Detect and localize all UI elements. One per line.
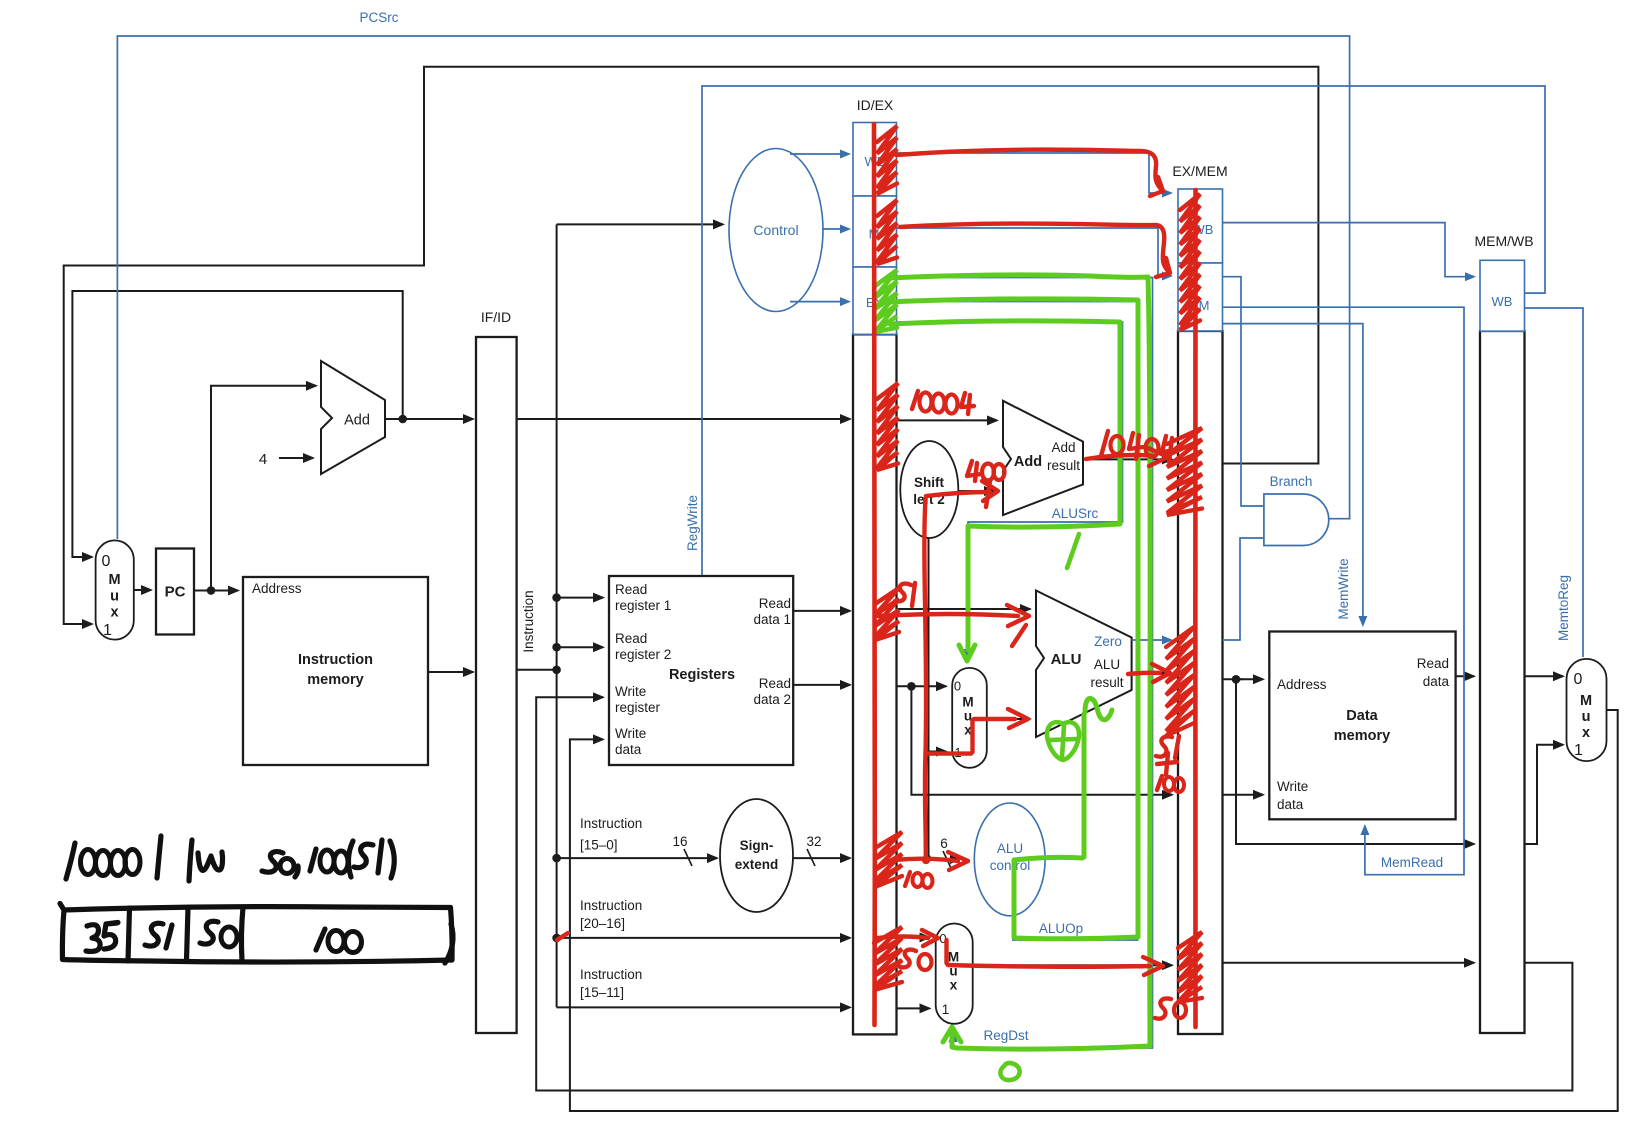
svg-text:Address: Address	[252, 581, 302, 596]
svg-text:Read: Read	[1417, 656, 1449, 671]
svg-text:data: data	[615, 742, 642, 757]
svg-text:Registers: Registers	[669, 667, 735, 683]
svg-text:M: M	[108, 572, 120, 588]
svg-text:32: 32	[806, 834, 821, 849]
svg-text:IF/ID: IF/ID	[481, 309, 511, 325]
svg-text:memory: memory	[307, 672, 363, 688]
svg-text:ALU: ALU	[1094, 657, 1120, 672]
svg-text:4: 4	[259, 451, 267, 468]
svg-text:1: 1	[103, 622, 112, 639]
svg-text:[15–11]: [15–11]	[580, 985, 624, 1000]
svg-text:M: M	[948, 950, 959, 965]
svg-text:RegWrite: RegWrite	[685, 495, 700, 551]
svg-text:1: 1	[1574, 742, 1583, 759]
svg-text:0: 0	[102, 553, 111, 570]
svg-text:data 1: data 1	[753, 612, 791, 627]
svg-text:ALU: ALU	[1051, 651, 1082, 668]
svg-text:Address: Address	[1277, 677, 1327, 692]
svg-text:Write: Write	[1277, 779, 1308, 794]
svg-text:0: 0	[954, 679, 961, 694]
svg-text:MEM/WB: MEM/WB	[1474, 233, 1533, 249]
svg-text:Add: Add	[1014, 454, 1042, 470]
svg-text:Instruction: Instruction	[521, 590, 536, 652]
svg-text:ID/EX: ID/EX	[857, 97, 894, 113]
svg-text:x: x	[950, 978, 958, 993]
svg-text:Shift: Shift	[914, 475, 944, 490]
svg-text:Read: Read	[759, 596, 791, 611]
svg-text:data: data	[1423, 674, 1450, 689]
svg-text:extend: extend	[735, 857, 779, 872]
svg-text:register 2: register 2	[615, 647, 671, 662]
svg-text:ALU: ALU	[997, 841, 1023, 856]
svg-text:data: data	[1277, 797, 1304, 812]
svg-text:result: result	[1090, 675, 1123, 690]
svg-text:Sign-: Sign-	[740, 838, 774, 853]
svg-text:MemWrite: MemWrite	[1336, 558, 1351, 619]
svg-text:ALUOp: ALUOp	[1039, 921, 1083, 936]
svg-text:u: u	[1582, 709, 1591, 725]
svg-text:EX/MEM: EX/MEM	[1172, 163, 1227, 179]
svg-text:Read: Read	[615, 631, 647, 646]
svg-text:Write: Write	[615, 726, 646, 741]
svg-text:result: result	[1047, 458, 1080, 473]
svg-text:data 2: data 2	[753, 692, 791, 707]
svg-text:RegDst: RegDst	[983, 1028, 1028, 1043]
svg-text:MemtoReg: MemtoReg	[1556, 575, 1571, 641]
svg-text:[15–0]: [15–0]	[580, 838, 618, 853]
svg-text:WB: WB	[1492, 294, 1513, 309]
svg-text:Data: Data	[1346, 708, 1378, 724]
svg-text:PCSrc: PCSrc	[359, 10, 398, 25]
svg-text:[20–16]: [20–16]	[580, 916, 625, 931]
svg-text:Read: Read	[615, 582, 647, 597]
svg-text:Write: Write	[615, 684, 646, 699]
svg-text:1: 1	[942, 1002, 950, 1017]
svg-text:M: M	[1580, 693, 1592, 709]
svg-text:Read: Read	[759, 676, 791, 691]
svg-text:Instruction: Instruction	[580, 898, 642, 913]
svg-text:register: register	[615, 700, 661, 715]
svg-text:Add: Add	[1051, 440, 1075, 455]
svg-text:Instruction: Instruction	[580, 967, 642, 982]
svg-text:MemRead: MemRead	[1381, 855, 1443, 870]
svg-text:0: 0	[1574, 671, 1583, 688]
svg-text:x: x	[110, 605, 118, 621]
svg-text:x: x	[1582, 725, 1590, 741]
svg-text:register 1: register 1	[615, 598, 671, 613]
svg-text:Instruction: Instruction	[580, 816, 642, 831]
svg-text:PC: PC	[165, 584, 186, 601]
svg-text:u: u	[110, 589, 119, 605]
svg-text:Zero: Zero	[1094, 634, 1122, 649]
svg-text:Add: Add	[344, 413, 370, 429]
svg-text:M: M	[962, 695, 973, 710]
svg-text:Instruction: Instruction	[298, 652, 373, 668]
svg-text:16: 16	[672, 834, 687, 849]
svg-text:6: 6	[940, 836, 948, 851]
svg-text:memory: memory	[1334, 728, 1390, 744]
svg-text:Control: Control	[753, 222, 798, 238]
svg-text:Branch: Branch	[1270, 474, 1313, 489]
svg-text:ALUSrc: ALUSrc	[1052, 506, 1099, 521]
